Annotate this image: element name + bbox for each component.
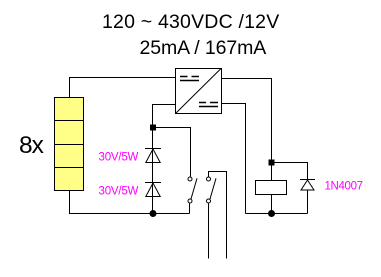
diode D9 1N4007	[300, 180, 315, 214]
svg-text:30V/5W: 30V/5W	[99, 152, 139, 164]
node A junction dot	[150, 125, 156, 131]
wire: node C to diode D9 top	[272, 163, 308, 180]
wire: S2 top lead loop to output terminal right	[209, 172, 227, 259]
node B junction dot (zener bottom / rail)	[150, 210, 157, 217]
wire: converter output - down to bottom rail right	[221, 104, 246, 214]
wire: bottom rail right	[246, 213, 308, 215]
wire: converter output + to node C	[221, 79, 272, 163]
node D junction dot (relay bottom / rail)	[268, 210, 275, 217]
svg-text:120 ~ 430VDC /12V: 120 ~ 430VDC /12V	[102, 11, 279, 33]
svg-text:8x: 8x	[19, 132, 44, 159]
wire: S2 bottom lead to output terminal left	[208, 203, 210, 258]
relay coil K1	[256, 163, 287, 214]
wire: zener chain vertical	[152, 128, 154, 214]
switch S2	[207, 177, 217, 203]
zener diode Z1 30V/5W	[145, 149, 161, 163]
svg-text:25mA / 167mA: 25mA / 167mA	[140, 37, 267, 59]
node C junction dot	[269, 160, 275, 166]
zener diode Z2 30V/5W	[145, 183, 161, 197]
LED stack D1..D8 (8x)	[55, 98, 84, 191]
DC/DC converter U1	[176, 69, 222, 114]
svg-text:1N4007: 1N4007	[325, 181, 363, 193]
switch S1	[188, 177, 197, 214]
wire: LED top to converter input +	[70, 78, 176, 98]
wire: converter input - to node A	[153, 105, 176, 128]
svg-text:30V/5W: 30V/5W	[99, 186, 139, 198]
wire: LED bottom to bottom rail left	[70, 191, 190, 214]
wire: node A to switch S1 top	[153, 128, 191, 177]
